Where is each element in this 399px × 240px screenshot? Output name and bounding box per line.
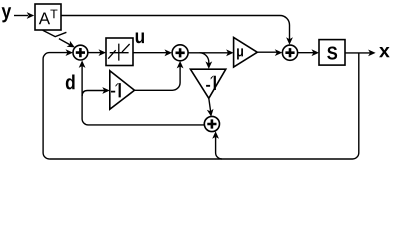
wire summer S3 to block S bbox=[298, 49, 319, 56]
wire block S to output x bbox=[345, 50, 376, 57]
wire A^T to summer S1 (diagonal with jog) bbox=[43, 30, 75, 47]
wire branch to inverter G2 bbox=[200, 53, 213, 69]
inverter gain G2 (-1, down-pointing) bbox=[190, 69, 225, 98]
wire branch from d path into inverter G1 bbox=[82, 87, 110, 96]
soft-threshold block T (dead-zone glyph) bbox=[106, 38, 133, 66]
output label x bbox=[379, 47, 390, 57]
summer S2 bbox=[172, 45, 188, 61]
inverter gain G1 (-1, right-pointing) bbox=[110, 71, 135, 110]
gain mu (amplifier triangle) bbox=[234, 37, 258, 67]
wire soft-threshold to summer S2 bbox=[133, 49, 172, 56]
summer S4 (bottom) bbox=[204, 116, 219, 131]
wire inverter G1 to summer S2 (bottom) bbox=[135, 61, 184, 90]
summer S1 bbox=[73, 45, 88, 60]
label d bbox=[66, 74, 75, 89]
wire summer S1 to soft-threshold block bbox=[88, 49, 106, 56]
label u bbox=[136, 33, 144, 44]
wire feedback from bottom bus into summer S1 (left) bbox=[43, 49, 73, 159]
wire A^T output to summer S3 (top feedforward) bbox=[61, 16, 293, 45]
input label y bbox=[2, 7, 12, 22]
wire y to A^T bbox=[14, 12, 34, 19]
summer S3 bbox=[282, 45, 297, 60]
wire summer S4 output to summer S1 (d path, up the left) bbox=[79, 60, 205, 125]
bottom feedback bus wire bbox=[49, 158, 222, 160]
wire summer S2 to gain mu bbox=[188, 49, 234, 56]
block A^T (transpose matrix) bbox=[35, 4, 61, 30]
wire inverter G2 to summer S4 bbox=[207, 98, 214, 116]
wire feedback from x down the right side to bottom bus bbox=[222, 53, 359, 159]
wire branch from bottom bus up into summer S4 bbox=[212, 131, 222, 159]
block S bbox=[319, 40, 345, 66]
wire gain mu to summer S3 bbox=[257, 49, 282, 56]
